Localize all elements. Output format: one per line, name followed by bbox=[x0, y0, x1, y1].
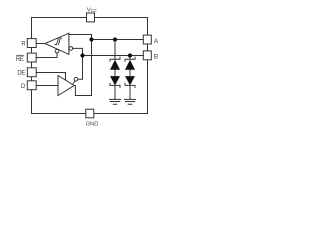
receiver enable bubble bbox=[55, 49, 59, 53]
wire TVS D2 to ground bbox=[114, 85, 116, 99]
diode D4 triangle bbox=[125, 76, 135, 85]
pin B box bbox=[143, 51, 151, 60]
wire DE pin to driver enable bbox=[36, 73, 65, 81]
pin D box bbox=[27, 81, 36, 90]
wire receiver non-inverting input to node A bbox=[69, 35, 92, 40]
pin RE box bbox=[27, 53, 36, 62]
wire TVS D3-D4 link bbox=[129, 70, 131, 76]
wire bottom boundary left of GND bbox=[32, 113, 86, 115]
svg-text:B: B bbox=[154, 54, 158, 61]
junction node A TVS tap bbox=[113, 37, 117, 41]
zener bar D1 top bbox=[110, 57, 120, 61]
junction node A receiver/driver bbox=[89, 37, 93, 41]
wire driver output to node A bbox=[74, 40, 91, 96]
wire D pin to driver input bbox=[36, 85, 58, 87]
pin R box bbox=[27, 39, 36, 48]
wire right boundary top-right corner to A pin bbox=[147, 18, 149, 36]
wire receiver inverting input to node B bbox=[73, 48, 83, 55]
svg-text:GND: GND bbox=[86, 121, 98, 127]
diode D2 triangle bbox=[110, 76, 120, 85]
svg-text:RE: RE bbox=[16, 57, 24, 63]
wire left boundary R-RE stub bbox=[31, 48, 33, 54]
wire top boundary right of Vcc bbox=[95, 17, 148, 19]
wire driver inverting output to node B bbox=[78, 56, 83, 80]
pin DE box bbox=[27, 68, 36, 77]
ground symbol left bbox=[110, 99, 121, 104]
wire left boundary RE-DE stub bbox=[31, 62, 33, 68]
junction node B receiver/driver bbox=[80, 53, 84, 57]
junction node B TVS tap bbox=[128, 53, 132, 57]
svg-text:VCC: VCC bbox=[87, 7, 97, 13]
wire left boundary D pin to bottom-left corner bbox=[31, 90, 33, 114]
wire bottom boundary right of GND bbox=[94, 113, 148, 115]
svg-text:A: A bbox=[154, 38, 159, 45]
svg-text:D: D bbox=[21, 84, 26, 90]
wire TVS D1-D2 link bbox=[114, 70, 116, 76]
svg-text:R: R bbox=[21, 42, 26, 48]
wire node B line to pin B bbox=[83, 55, 144, 57]
wire right boundary B pin to bottom-right corner bbox=[147, 60, 149, 114]
diode D3 triangle bbox=[125, 60, 135, 70]
wire left boundary DE-D stub bbox=[31, 77, 33, 81]
diode D1 triangle bbox=[110, 60, 120, 70]
ground symbol right bbox=[125, 99, 136, 104]
hysteresis symbol inside receiver bbox=[55, 38, 62, 44]
receiver inverting input bubble bbox=[69, 47, 73, 51]
wire left boundary top-left corner to R pin bbox=[31, 18, 33, 39]
pin A box bbox=[143, 35, 151, 44]
wire R pin to receiver output bbox=[36, 43, 45, 45]
driver inverting output bubble bbox=[74, 77, 78, 81]
wire top boundary left of Vcc bbox=[32, 17, 87, 19]
wire right boundary A-B stub bbox=[147, 44, 149, 51]
wire node A to TVS D1 bbox=[114, 40, 116, 60]
wire TVS D4 to ground bbox=[129, 85, 131, 99]
overline RE bbox=[16, 54, 24, 56]
wire node A line to pin A bbox=[92, 39, 144, 41]
driver U2 triangle bbox=[58, 76, 74, 96]
pin VCC box bbox=[87, 13, 95, 22]
zener bar D4 bottom bbox=[125, 83, 135, 87]
zener bar D2 bottom bbox=[110, 83, 120, 87]
wire RE pin to receiver enable bubble bbox=[36, 53, 57, 58]
driver inverting output stub bbox=[73, 81, 75, 84]
zener bar D3 top bbox=[125, 57, 135, 61]
svg-text:DE: DE bbox=[17, 70, 25, 76]
op-amp U1 receiver triangle bbox=[45, 33, 69, 54]
pin GND box bbox=[86, 109, 94, 118]
wire node B to TVS D3 bbox=[129, 56, 131, 60]
